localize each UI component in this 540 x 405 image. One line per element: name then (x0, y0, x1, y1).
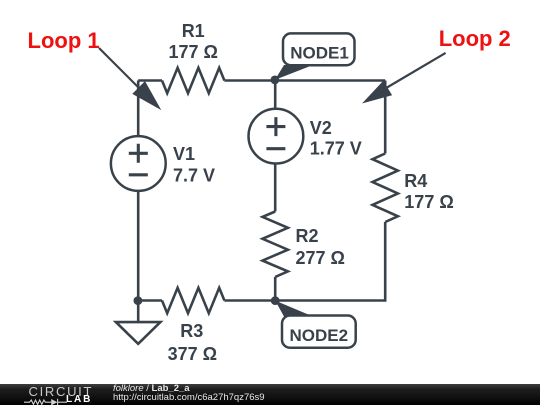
svg-text:NODE2: NODE2 (290, 326, 349, 345)
svg-text:277 Ω: 277 Ω (296, 248, 345, 268)
svg-text:R2: R2 (296, 226, 319, 246)
svg-text:R3: R3 (180, 321, 203, 341)
svg-text:7.7 V: 7.7 V (173, 166, 215, 186)
svg-text:1.77 V: 1.77 V (310, 139, 362, 159)
svg-text:V1: V1 (173, 144, 195, 164)
svg-text:NODE1: NODE1 (290, 44, 349, 63)
svg-text:177 Ω: 177 Ω (404, 192, 453, 212)
svg-text:Loop 1: Loop 1 (28, 28, 100, 53)
svg-text:Loop 2: Loop 2 (439, 26, 511, 51)
svg-text:177 Ω: 177 Ω (168, 42, 217, 62)
svg-text:377 Ω: 377 Ω (168, 344, 217, 364)
svg-text:R1: R1 (182, 21, 205, 41)
svg-text:R4: R4 (404, 171, 427, 191)
svg-text:V2: V2 (310, 118, 332, 138)
